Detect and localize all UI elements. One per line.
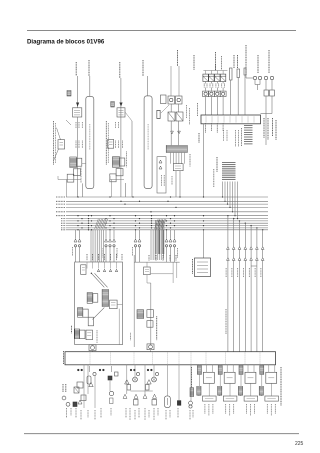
- patch arrow A up: [57, 128, 61, 140]
- wire st in 1: [146, 262, 148, 267]
- wire ch7: [144, 365, 146, 394]
- digital patch bar: [201, 115, 261, 124]
- monitor select hatch: [102, 289, 108, 306]
- link wire: [131, 390, 153, 392]
- band tick: [133, 353, 135, 365]
- box1 inner marks: [97, 269, 99, 271]
- bus junction dots: [77, 196, 204, 230]
- st send label: [132, 247, 134, 256]
- band tick: [205, 353, 207, 365]
- label trim B (rotated): [65, 384, 67, 392]
- bus staircase joins: [222, 196, 238, 219]
- st in lower box: [147, 321, 153, 328]
- output group 2 hatch2: [218, 386, 222, 395]
- output group 2 wires: [219, 364, 221, 367]
- insert transformer: [74, 387, 79, 393]
- digital jack 4: [270, 76, 273, 79]
- input patch label A (rotated): [53, 121, 55, 165]
- patch bar tick: [205, 116, 207, 122]
- GR meter box 1: [168, 96, 175, 104]
- output group 1 wires: [198, 364, 200, 367]
- patch bar tick: [241, 116, 243, 122]
- mix bus lines: [66, 197, 268, 230]
- direct out bracket A: [58, 179, 81, 181]
- omni out jack 4: [220, 91, 226, 96]
- insert ticks B lower: [115, 141, 117, 149]
- wire monitor jack: [92, 351, 94, 352]
- wire GR1 down: [170, 104, 172, 112]
- amp row tri 4: [153, 394, 157, 398]
- output group 1 jack bar: [203, 396, 217, 401]
- bus master 2: [233, 218, 234, 219]
- output group 1 hatch2: [197, 386, 201, 395]
- wire B second: [131, 121, 133, 197]
- bus summing hatch: [95, 219, 167, 229]
- wire fader B feed: [146, 76, 148, 96]
- gain trim 4: [155, 372, 158, 375]
- monitor send label: [72, 247, 74, 256]
- label DIGITAL IN (rotated): [268, 50, 270, 73]
- pre box 2: [146, 385, 150, 391]
- output group 3 hatch2: [238, 386, 242, 395]
- omni out terminals 3: [215, 84, 217, 88]
- effect diag wire: [161, 105, 169, 113]
- box1 inner wires: [87, 262, 117, 269]
- wire 2tr out: [245, 75, 247, 78]
- output group 4 balun: [260, 366, 264, 375]
- fader strip A label: [89, 124, 91, 150]
- aux label R: [163, 248, 165, 258]
- st in level box: [147, 310, 154, 318]
- omni out DA 3: [216, 71, 218, 75]
- output group 3 balun: [239, 366, 243, 375]
- omni out jack 1: [203, 91, 209, 96]
- wire input ch2: [87, 365, 89, 394]
- pre amp tri 1: [125, 380, 129, 384]
- monitor bottom jack: [89, 345, 96, 351]
- label st in (rotated): [130, 333, 132, 341]
- label version2 (rotated): [280, 367, 282, 406]
- output group 2 jack bar: [223, 396, 237, 401]
- svg-text:225: 225: [295, 441, 304, 447]
- wire digital jog: [261, 113, 273, 115]
- pad dot pair 3: [130, 369, 132, 371]
- patch select box A: [58, 140, 65, 149]
- wire omni 3: [216, 82, 218, 84]
- label ST OUT drop (rotated): [225, 309, 227, 334]
- EQ block A: [70, 157, 77, 168]
- effect patch box small: [157, 110, 160, 118]
- wire C to bus 2: [179, 171, 181, 197]
- labels above G2 stack: [223, 130, 225, 141]
- bus master labels (rotated): [226, 268, 261, 277]
- head amp tri: [78, 400, 82, 404]
- ticks B stack: [126, 151, 128, 167]
- fader strip B label: [147, 124, 149, 150]
- label INPUT PATCH (rotated): [197, 103, 199, 116]
- band tick: [244, 353, 246, 365]
- insert jack ring 2: [66, 402, 70, 406]
- label OMNI B (rotated): [215, 52, 217, 70]
- omni out DA 1: [205, 71, 207, 75]
- wire ch8: [153, 365, 155, 377]
- st in left rail: [133, 255, 135, 347]
- digital jack 3: [264, 76, 267, 79]
- input marks: [110, 398, 114, 404]
- phones jack body: [165, 396, 171, 408]
- analog patch band: [65, 352, 276, 365]
- wire ch6: [134, 365, 136, 377]
- st in main rail: [150, 283, 152, 345]
- monitor trim box: [93, 294, 98, 303]
- stereo bus bundle: [156, 220, 164, 254]
- direct out bracket B: [110, 179, 124, 181]
- labels under effect return: [171, 176, 173, 185]
- wire digital 1: [265, 80, 267, 90]
- wire digital 2: [271, 80, 273, 90]
- wire B2 to bus: [125, 183, 127, 197]
- wire channel A main: [76, 76, 78, 108]
- wire st in jack: [150, 350, 152, 352]
- label 2TR OUT DIGITAL (rotated): [245, 45, 247, 75]
- SRC block B: [117, 108, 125, 117]
- wire monitor right: [117, 303, 122, 305]
- talkback diag arrow: [93, 308, 105, 320]
- pad dot pair 4: [147, 369, 149, 371]
- wire C down 1: [170, 121, 172, 145]
- band tick: [89, 353, 91, 365]
- insert ticks A lower: [75, 141, 77, 149]
- label SLOT 1 (rotated): [233, 55, 235, 68]
- monitor send 1: [74, 239, 77, 242]
- page top rule: [27, 30, 296, 32]
- label MIC/LINE (rotated): [63, 351, 65, 364]
- omni left hatch: [190, 388, 194, 397]
- solo bundle 1: [91, 230, 103, 262]
- digital receiver box 2: [270, 90, 275, 96]
- patch bar tick: [235, 116, 237, 122]
- label INPUT B1 (rotated): [119, 62, 121, 78]
- band tick: [110, 353, 112, 365]
- label SLOT 2 (rotated): [237, 55, 239, 68]
- bus master 5: [250, 225, 251, 226]
- output group 3 jack bar: [244, 396, 258, 401]
- output group 2 balun: [218, 366, 222, 375]
- output group 1 labels (rotated): [204, 404, 206, 414]
- output group 2 DA box: [224, 372, 235, 383]
- gain trim 2: [115, 372, 119, 376]
- effect return block: [173, 164, 183, 171]
- omni out DA 2: [210, 71, 212, 75]
- aux send R3: [173, 239, 176, 242]
- phantom cap: [87, 376, 91, 384]
- label EFFECT RETURN (rotated): [189, 154, 191, 167]
- effect fan wires: [171, 153, 185, 164]
- band tick: [152, 353, 154, 365]
- band tick: [167, 353, 169, 365]
- st in patch hatch: [137, 310, 144, 319]
- monitor diag arrow 1: [91, 273, 104, 287]
- pad tick 2: [111, 366, 113, 372]
- label OUT PATCH (rotated): [198, 133, 200, 143]
- xlr circle 2: [152, 377, 157, 382]
- output group 3 labels (rotated): [246, 404, 248, 414]
- st in top rail: [134, 261, 180, 263]
- st send 2: [138, 239, 141, 242]
- aux send R1: [165, 239, 168, 242]
- label DIGITAL OUT (rotated): [257, 55, 259, 73]
- label INPUT A2 (rotated): [88, 60, 90, 76]
- slot connector 3: [244, 68, 246, 75]
- wire st in jog right: [151, 273, 173, 275]
- aux send L2: [109, 239, 112, 242]
- talkback hatch: [78, 308, 83, 318]
- output group 4 jack bar: [265, 396, 279, 401]
- monitor trim hatch: [87, 293, 92, 304]
- wire GR2 down: [178, 104, 180, 112]
- effect patch box small: [157, 110, 160, 118]
- arrowhead A: [76, 103, 79, 107]
- label GR (rotated): [186, 105, 188, 118]
- aux send R2: [169, 239, 172, 242]
- digital receiver box 1: [264, 90, 269, 96]
- arrowhead B: [119, 103, 122, 107]
- label mixer config (rotated): [156, 316, 158, 340]
- arrow A mid: [66, 120, 71, 125]
- label aux ret 2 (rotated): [163, 175, 165, 186]
- wire slot 2: [237, 78, 239, 115]
- aux return tri 2: [159, 166, 162, 169]
- solo node dot: [91, 273, 92, 274]
- output group 1 DA box: [203, 372, 214, 383]
- input1516 dark hatch: [74, 329, 79, 339]
- digital jack 2: [258, 76, 261, 79]
- bus name label stack: [222, 163, 236, 180]
- input1516 box a: [80, 330, 85, 339]
- dynamics block B: [116, 169, 123, 176]
- output group 1 balun: [197, 366, 201, 375]
- wire patch to bus: [203, 124, 205, 197]
- labels under patch bar: [205, 123, 207, 133]
- slot connector 1: [230, 68, 233, 80]
- st in rail ticks: [149, 255, 176, 261]
- band tick: [259, 353, 261, 365]
- svg-text:Diagrama de blocos 01V96: Diagrama de blocos 01V96: [27, 39, 105, 46]
- label trim A (rotated): [62, 384, 64, 392]
- label OMNI A (rotated): [193, 55, 195, 70]
- amp row tri 2: [134, 394, 138, 398]
- label OMNI C (rotated): [221, 56, 223, 70]
- bottom labels left: [67, 408, 194, 420]
- monitor out box: [110, 300, 118, 309]
- st in gain box: [144, 267, 151, 275]
- wire digital 4: [271, 96, 273, 114]
- patch bar tick: [223, 116, 225, 122]
- label ST BUS (rotated): [216, 157, 218, 172]
- insert jack dark: [73, 402, 77, 407]
- input patch label B (rotated): [105, 121, 107, 165]
- wire B diag: [125, 112, 132, 121]
- label left of stack (rotated): [241, 128, 243, 146]
- output group 4 DA box: [266, 372, 277, 383]
- bus master 6: [256, 227, 257, 228]
- delay block A: [67, 174, 74, 182]
- input xlr dark: [108, 376, 112, 380]
- pad dot pair 1: [77, 369, 79, 371]
- label INPUT B2 (rotated): [142, 60, 144, 76]
- wire A2 to bus: [81, 183, 83, 197]
- mic amp tri: [89, 382, 93, 386]
- stereo out label stack: [244, 126, 253, 144]
- label INPUT A1 (rotated): [75, 62, 77, 76]
- omni out jack 2: [208, 91, 214, 96]
- wire fader A feed: [89, 76, 91, 96]
- GR meter box 2: [176, 96, 183, 104]
- input1516 box b: [86, 330, 93, 340]
- solo logic box: [81, 265, 86, 275]
- effect corner box: [161, 95, 167, 104]
- wire 2tr b: [190, 365, 192, 401]
- label INPUT 15-16 (rotated): [71, 326, 73, 334]
- pre amp tri 2: [147, 380, 151, 384]
- oscillator box: [195, 258, 211, 277]
- talkback box 2: [88, 317, 93, 326]
- page bottom rule: [24, 433, 299, 435]
- gain trim 3: [136, 372, 139, 375]
- xlr circle 1: [133, 377, 138, 382]
- bus labels left (rotated): [56, 197, 66, 230]
- band tick: [178, 353, 180, 365]
- wire slot 1: [230, 80, 232, 115]
- patch bar tick: [211, 116, 213, 122]
- talkback box: [83, 309, 88, 317]
- wire phones: [166, 365, 168, 396]
- wire ch5: [126, 365, 128, 394]
- monitor diag arrow 2: [95, 273, 108, 287]
- wire slot 3: [244, 75, 246, 115]
- wire input ch4: [109, 380, 111, 391]
- aux label L: [102, 248, 104, 258]
- label omni st out (rotated): [191, 367, 193, 388]
- amp row tri 3: [143, 394, 147, 398]
- insert ticks B upper: [115, 122, 117, 128]
- amp row tri 1: [123, 394, 127, 398]
- fader strip B: [144, 96, 152, 189]
- fader strip A: [86, 96, 94, 188]
- meter block B: [111, 102, 115, 108]
- slot connector 2: [237, 69, 240, 78]
- head amp box 1: [77, 382, 83, 388]
- label OSCILLATOR (rotated): [192, 259, 194, 274]
- output group 3 DA box: [245, 372, 256, 383]
- EQ block B: [112, 157, 119, 168]
- monitor send 2: [78, 239, 81, 242]
- omni out terminals 1: [203, 84, 205, 88]
- labels stereo outs (rotated): [263, 118, 265, 138]
- effect input wires: [170, 66, 172, 96]
- omni out jack 3: [214, 91, 220, 96]
- wire digital 3: [265, 96, 267, 145]
- omni out bracket: [203, 70, 227, 72]
- wire channel B main: [120, 78, 122, 197]
- delay block B: [110, 174, 116, 182]
- st out drop 1: [203, 230, 205, 258]
- patch arrow A dn: [54, 149, 59, 160]
- aux send L3: [113, 239, 116, 242]
- bus master 7: [262, 229, 263, 230]
- output group 4 hatch2: [259, 386, 263, 395]
- st send 1: [134, 239, 137, 242]
- aux send L1: [105, 239, 108, 242]
- output group 2 labels (rotated): [225, 404, 227, 414]
- transformer pair C: [168, 112, 175, 121]
- amp row box 2: [152, 400, 157, 406]
- pad dot pair 2: [99, 369, 101, 371]
- patch bar tick: [217, 116, 219, 122]
- 2tr dark square: [177, 401, 181, 406]
- label aux ret 1 (rotated): [161, 175, 163, 186]
- effect tri 2: [178, 131, 181, 134]
- wire omni 1: [205, 82, 207, 84]
- bus master 1: [227, 215, 228, 216]
- wire input ch3: [94, 376, 96, 408]
- digital jack bracket: [254, 80, 256, 85]
- amp row box 1: [134, 400, 139, 406]
- output group 4 labels (rotated): [266, 404, 268, 414]
- output group 4 wires: [261, 364, 263, 367]
- pad tick 1: [89, 366, 91, 372]
- insert jack ring 1: [62, 396, 66, 400]
- ticks A stack: [80, 168, 82, 184]
- output group 3 wires: [240, 364, 242, 367]
- aux return outline: [157, 157, 166, 193]
- omni out DA 4: [222, 71, 224, 75]
- omni out terminals 4: [221, 84, 223, 88]
- wire EQ to fader A: [82, 163, 86, 165]
- wire input ch1: [83, 365, 85, 408]
- solo bundle 2: [151, 230, 163, 260]
- meter block A: [67, 91, 71, 97]
- bus master 4: [245, 223, 246, 224]
- patch select box B: [108, 140, 114, 149]
- wire C to bus 1: [175, 171, 177, 197]
- patch bar tick: [253, 116, 255, 122]
- monitor region outline: [75, 262, 123, 345]
- input1516 ticks: [96, 330, 98, 343]
- head amp box 2: [81, 395, 86, 401]
- dynamics block A: [73, 169, 80, 176]
- monitor riser labels: [87, 254, 122, 261]
- wire A below SRC: [76, 117, 78, 197]
- patch bar tick: [229, 116, 231, 122]
- effect tri 1: [171, 131, 174, 134]
- wire C down 2: [178, 121, 180, 145]
- input ring: [109, 391, 113, 395]
- patch bar tick: [247, 116, 249, 122]
- insert ticks A upper: [75, 122, 77, 128]
- gain trim 1: [93, 372, 96, 375]
- digital jack 1: [253, 76, 256, 79]
- bus master 3: [239, 220, 240, 221]
- aux return tri 1: [159, 160, 162, 163]
- wire omni 4: [222, 82, 224, 84]
- 2tr rings: [189, 401, 193, 405]
- SRC block A: [73, 108, 82, 117]
- band tick: [225, 353, 227, 365]
- label EFFECT (rotated): [177, 50, 179, 66]
- band tick: [190, 353, 192, 365]
- pre box 1: [127, 385, 131, 391]
